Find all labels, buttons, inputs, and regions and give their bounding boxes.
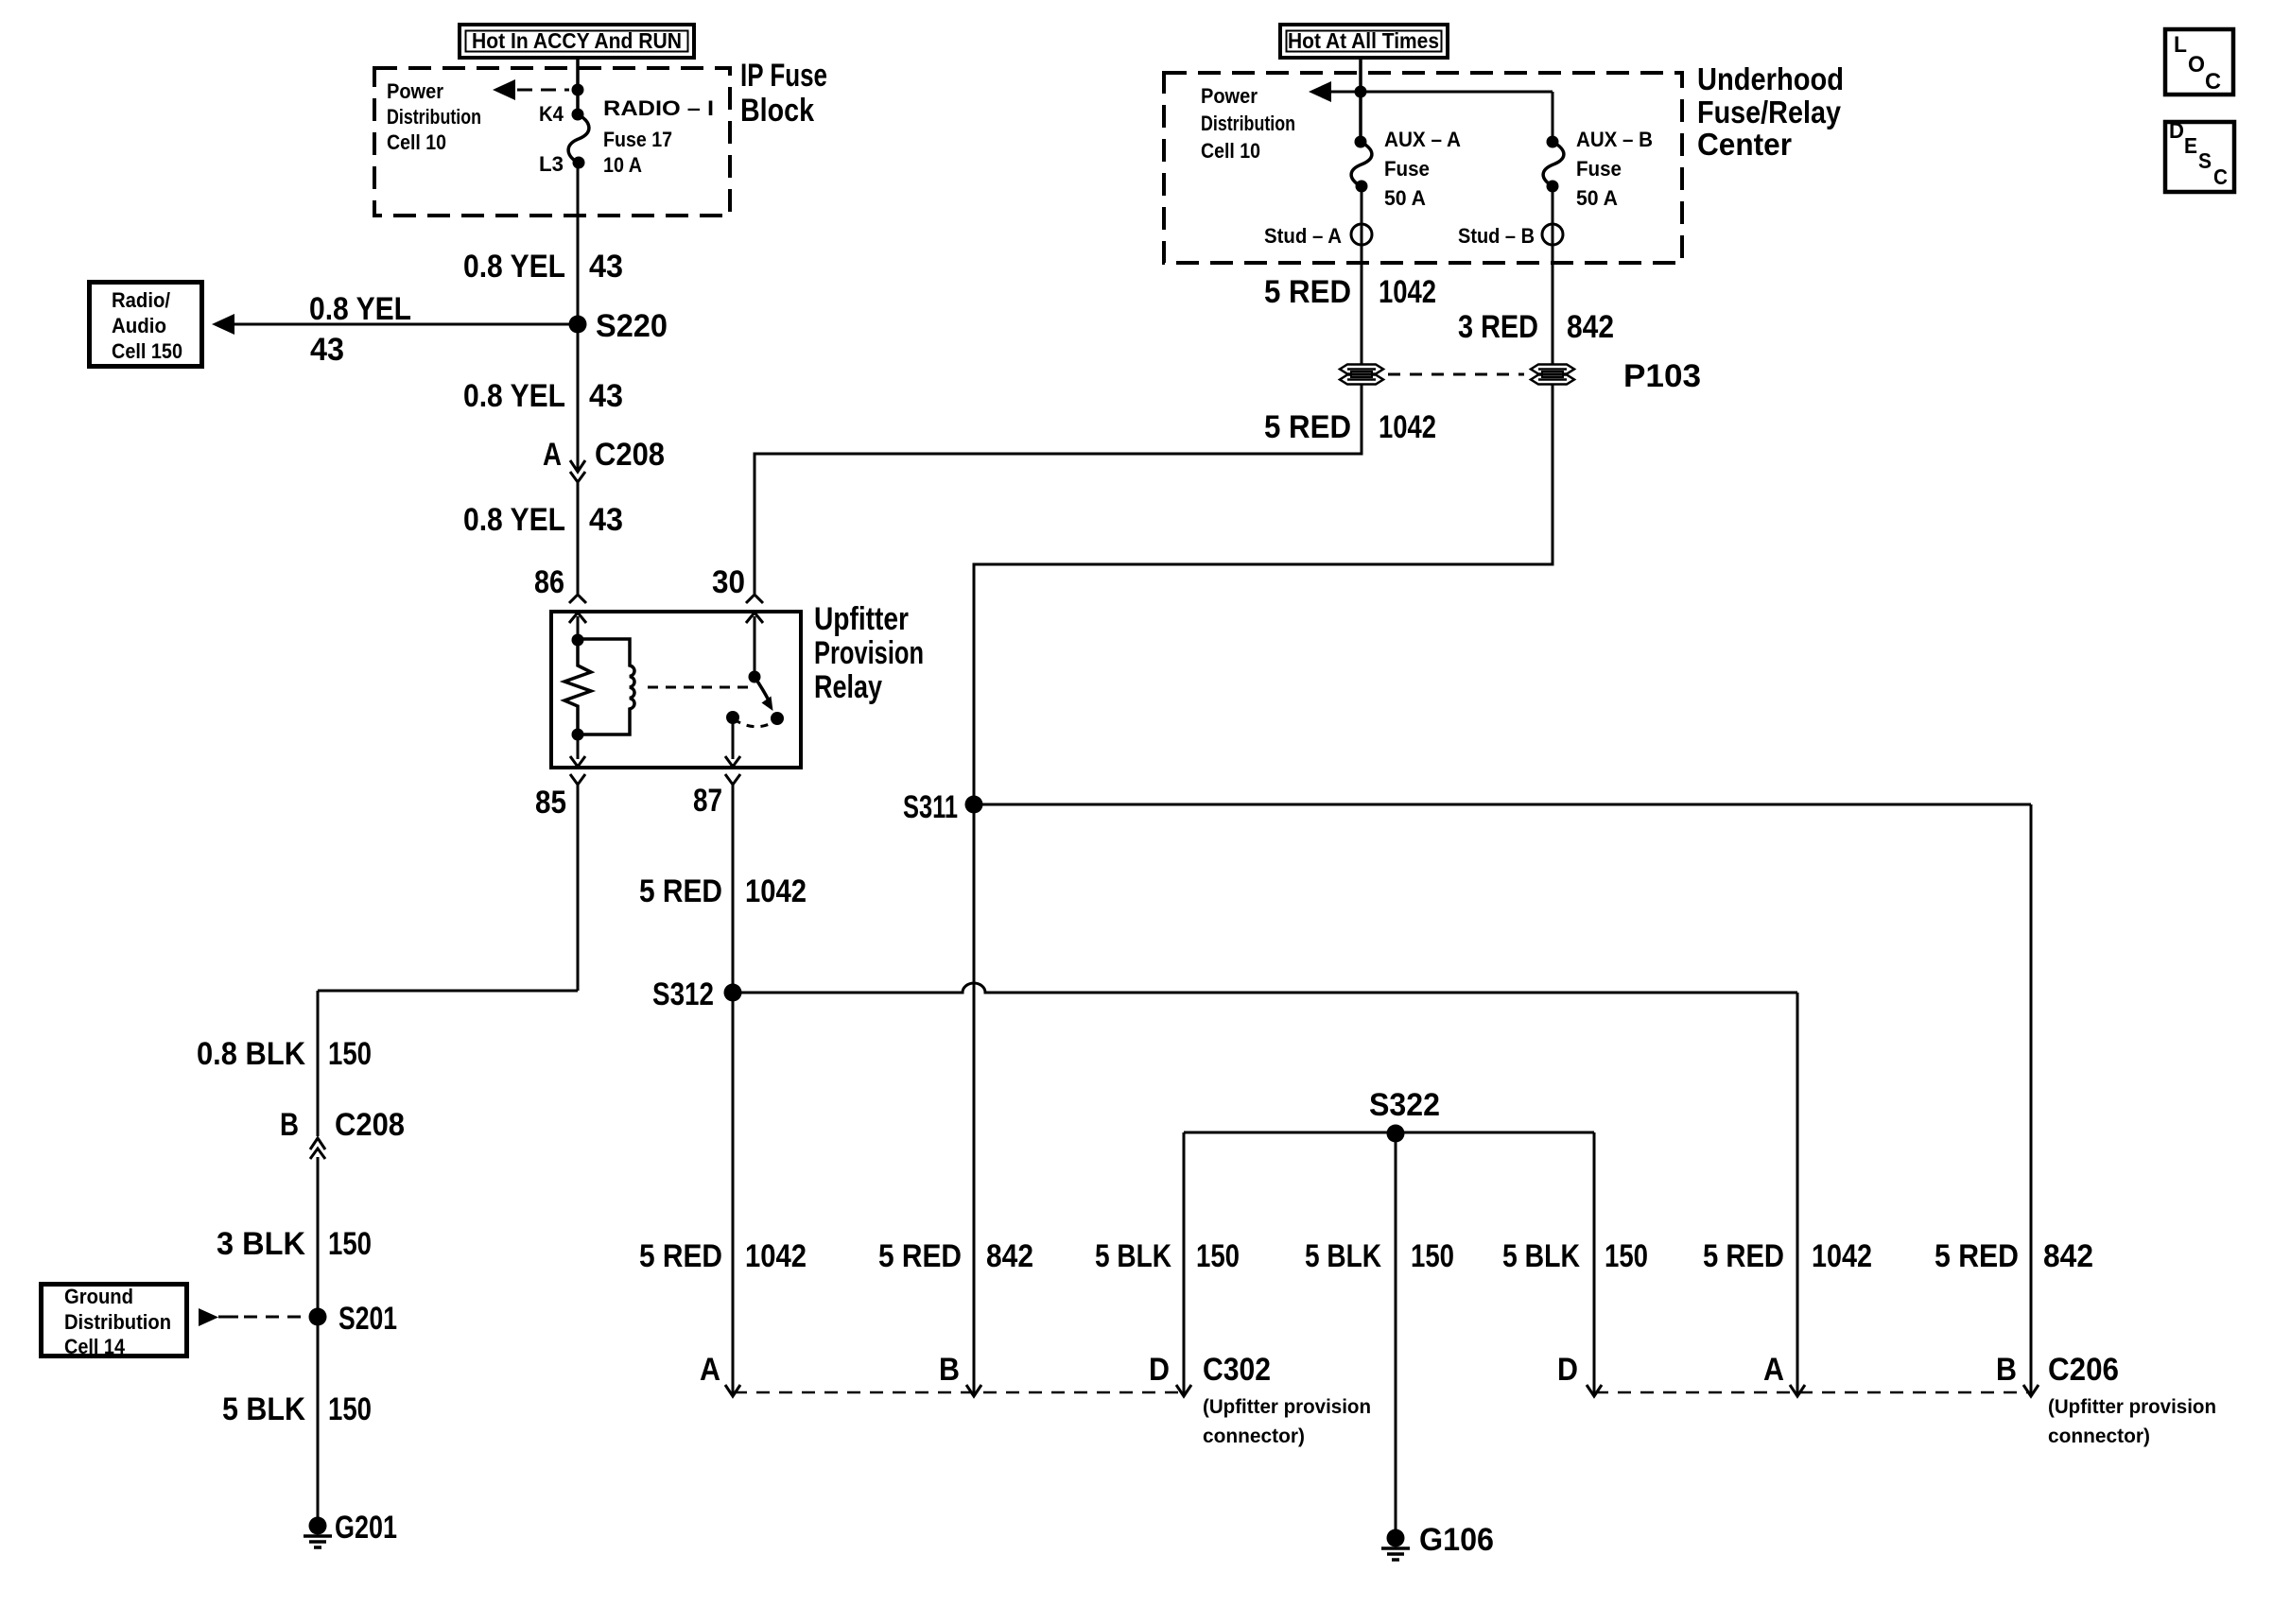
svg-text:connector): connector) [1203, 1425, 1305, 1447]
wire to fuse AUX-B [1552, 92, 1554, 142]
svg-text:RADIO – I: RADIO – I [603, 96, 714, 120]
svg-text:1042: 1042 [1379, 274, 1436, 310]
svg-text:A: A [1763, 1352, 1784, 1388]
label: RADIO-I Fuse 17 10 A [603, 96, 714, 177]
relay switch arm with arrowhead [755, 677, 773, 711]
svg-text:5 RED: 5 RED [639, 1238, 722, 1274]
fuse AUX-B top dot [1547, 136, 1559, 148]
svg-text:K4: K4 [539, 102, 564, 126]
fuse AUX-B bottom dot [1547, 181, 1559, 193]
relay U1 box: Upfitter Provision Relay [551, 612, 801, 768]
dashed reference to Ground Distribution [199, 1308, 306, 1326]
svg-text:0.8 YEL: 0.8 YEL [309, 291, 411, 327]
wire label 0.8 YEL 43 (C208 to relay) [463, 502, 623, 538]
svg-text:G201: G201 [335, 1510, 397, 1546]
connector C302 pin B arrowhead [966, 1385, 981, 1396]
wire S322 down to ground G106 [1395, 1133, 1397, 1538]
svg-text:3 RED: 3 RED [1458, 309, 1538, 345]
relay pin 30 internal arrow [746, 613, 763, 677]
svg-text:43: 43 [589, 249, 623, 285]
svg-text:50 A: 50 A [1576, 186, 1618, 210]
svg-text:S: S [2198, 148, 2212, 173]
svg-text:Distribution: Distribution [387, 105, 481, 129]
relay label: Upfitter Provision Relay [814, 601, 924, 705]
svg-text:B: B [1996, 1352, 2017, 1388]
fuse AUX-A top dot [1355, 136, 1367, 148]
node S311 dot [965, 796, 983, 814]
svg-text:S201: S201 [338, 1301, 397, 1337]
svg-text:AUX – A: AUX – A [1384, 128, 1461, 151]
wire fuse AUX-A to Stud-A [1361, 186, 1363, 364]
svg-text:5 RED: 5 RED [1264, 409, 1351, 445]
relay coil bottom dot [572, 729, 584, 741]
svg-text:150: 150 [328, 1391, 372, 1427]
svg-text:P103: P103 [1623, 358, 1701, 394]
relay switch pivot dot [749, 671, 761, 683]
wire label 5 RED 1042 (stud A) [1264, 274, 1436, 310]
wire label 3 BLK 150 [217, 1226, 372, 1262]
relay pin 86 connector chevron [569, 595, 586, 603]
svg-text:43: 43 [310, 332, 344, 368]
connector C206 label [2048, 1352, 2216, 1447]
svg-text:AUX – B: AUX – B [1576, 128, 1653, 151]
svg-text:(Upfitter provision: (Upfitter provision [1203, 1396, 1371, 1418]
wire from Hot At All Times down [1359, 60, 1362, 142]
relay pin 87 connector chevron [725, 774, 740, 785]
svg-text:Ground: Ground [64, 1285, 133, 1308]
connector C208 pin A symbol [570, 460, 585, 482]
svg-text:Hot At All Times: Hot At All Times [1288, 28, 1439, 53]
svg-text:S322: S322 [1369, 1087, 1440, 1123]
svg-text:5 BLK: 5 BLK [1305, 1238, 1381, 1274]
wire label 5 BLK 150 (to G201) [222, 1391, 372, 1427]
label: Power Distribution Cell 10 (IP) [387, 79, 481, 154]
connector C302 label [1203, 1352, 1371, 1447]
wire S312 right with hop over 842 wire [733, 983, 1797, 993]
svg-text:C208: C208 [595, 437, 665, 473]
IP Fuse Block dashed outline [374, 68, 730, 216]
svg-text:connector): connector) [2048, 1425, 2150, 1447]
wire S311 right to C206 pin B branch [974, 803, 2031, 806]
label: Underhood Fuse/Relay Center [1697, 61, 1844, 162]
svg-text:Fuse: Fuse [1384, 157, 1430, 181]
wire label 0.8 YEL 43 (fuse to S220) [463, 249, 623, 285]
svg-text:C206: C206 [2048, 1352, 2119, 1388]
wire P103 to relay pin 30 [755, 385, 1362, 594]
svg-text:Provision: Provision [814, 635, 924, 671]
node S322 dot [1387, 1125, 1405, 1143]
connector C206 pin A arrowhead [1790, 1385, 1805, 1396]
svg-text:0.8 YEL: 0.8 YEL [463, 502, 565, 538]
grommet P103 (circuit 842) [1531, 365, 1574, 385]
svg-text:842: 842 [2043, 1238, 2093, 1274]
connector C206 pin letters [1557, 1352, 2017, 1388]
svg-text:Center: Center [1697, 127, 1792, 162]
svg-text:IP Fuse: IP Fuse [740, 58, 827, 94]
svg-text:Cell 14: Cell 14 [64, 1335, 126, 1358]
svg-text:5 BLK: 5 BLK [1502, 1238, 1580, 1274]
wire S201 to ground G201 [317, 1317, 320, 1526]
wire C208 pin A to relay pin 86 [577, 482, 580, 594]
svg-text:L: L [2174, 32, 2187, 58]
wire S220 down to connector C208 pin A [577, 324, 580, 472]
svg-text:1042: 1042 [745, 1238, 807, 1274]
wire from Hot In ACCY feed down to fuse RADIO-I [576, 60, 580, 114]
wire S311 down to C302 pin B [973, 804, 976, 1396]
svg-text:O: O [2188, 52, 2205, 78]
relay coil winding [578, 639, 634, 734]
svg-text:43: 43 [589, 502, 623, 538]
connector C206 pin B arrowhead [2023, 1385, 2039, 1396]
svg-text:150: 150 [328, 1226, 372, 1262]
Stud-B terminal circle [1542, 224, 1563, 245]
svg-text:5 RED: 5 RED [639, 873, 722, 909]
svg-text:B: B [939, 1352, 960, 1388]
svg-text:C302: C302 [1203, 1352, 1271, 1388]
svg-text:842: 842 [1567, 309, 1614, 345]
svg-text:150: 150 [1411, 1238, 1454, 1274]
svg-text:Block: Block [740, 93, 814, 129]
power feed label box: Hot At All Times [1280, 25, 1448, 58]
dashed tie between P103 grommets [1388, 373, 1524, 376]
grommet P103 (circuit 1042) [1340, 365, 1383, 385]
pin K4 dot [572, 109, 584, 121]
svg-text:Distribution: Distribution [1201, 112, 1295, 135]
svg-text:0.8 YEL: 0.8 YEL [463, 249, 565, 285]
label: Power Distribution Cell 10 (underhood) [1201, 84, 1295, 163]
node S220 dot [569, 316, 587, 334]
svg-text:A: A [543, 437, 562, 473]
wire S322 left branch down to C302 pin D [1183, 1132, 1186, 1396]
svg-text:5 BLK: 5 BLK [222, 1391, 305, 1427]
svg-text:5 RED: 5 RED [1264, 274, 1351, 310]
wire relay pin 85 down [577, 785, 580, 991]
relay pin 87 internal arrow [725, 717, 740, 767]
svg-text:0.8 BLK: 0.8 BLK [197, 1036, 305, 1072]
wire label 5 RED 842 (C206 B) [1935, 1238, 2093, 1274]
wire label 5 RED 842 (C302 B) [878, 1238, 1033, 1274]
wire down to connector C208 pin B [317, 991, 320, 1136]
DESC reference box [2165, 118, 2234, 192]
svg-text:Power: Power [1201, 84, 1258, 108]
ground G201 symbol [304, 1517, 332, 1548]
svg-text:Fuse/Relay: Fuse/Relay [1697, 95, 1842, 130]
svg-text:Radio/: Radio/ [112, 288, 170, 312]
svg-text:C: C [2205, 69, 2221, 95]
svg-text:B: B [280, 1107, 299, 1143]
svg-text:0.8 YEL: 0.8 YEL [463, 378, 565, 414]
connector C206 dashed face [1595, 1391, 2030, 1394]
wire label 5 RED 1042 (below P103) [1264, 409, 1436, 445]
wire P103-842 down and left to S311 branch [974, 385, 1553, 804]
wire label 5 RED 1042 (C206 A) [1703, 1238, 1872, 1274]
svg-text:Upfitter: Upfitter [814, 601, 909, 637]
svg-text:Relay: Relay [814, 669, 882, 705]
connector C208 pin A labels [543, 437, 665, 473]
svg-text:85: 85 [535, 785, 566, 821]
wire relay pin 87 down to S312 [732, 785, 735, 993]
relay coil resistor (zigzag) [564, 639, 591, 734]
wire label 5 BLK 150 (C206 D) [1502, 1238, 1648, 1274]
svg-text:87: 87 [693, 783, 722, 819]
relay pin 86 internal arrow [569, 613, 586, 639]
relay dashed coil-to-arm linkage [648, 686, 748, 689]
svg-text:150: 150 [328, 1036, 372, 1072]
svg-text:1042: 1042 [745, 873, 807, 909]
Underhood Fuse/Relay Center dashed outline [1164, 73, 1682, 263]
svg-text:Stud – A: Stud – A [1264, 224, 1342, 248]
svg-text:Fuse 17: Fuse 17 [603, 128, 672, 151]
svg-text:S220: S220 [596, 308, 668, 344]
svg-text:Cell 150: Cell 150 [112, 339, 182, 363]
connector C302 dashed face [734, 1391, 1183, 1394]
wire S322 horizontal [1184, 1132, 1594, 1134]
connector C208 pin B labels [280, 1107, 405, 1143]
svg-text:1042: 1042 [1379, 409, 1436, 445]
svg-text:S311: S311 [903, 789, 958, 825]
arrow to Power Distribution Cell 10 (IP) [493, 79, 569, 100]
svg-text:150: 150 [1196, 1238, 1240, 1274]
svg-text:D: D [2169, 118, 2184, 143]
svg-text:30: 30 [712, 564, 745, 600]
relay switch arm end dot [771, 712, 784, 725]
relay coil top dot [572, 634, 584, 647]
svg-text:150: 150 [1605, 1238, 1648, 1274]
relay pin 85 internal arrow [570, 734, 585, 767]
node S312 dot [724, 984, 742, 1002]
svg-text:3 BLK: 3 BLK [217, 1226, 305, 1262]
component box: Ground Distribution Cell 14 [42, 1285, 187, 1359]
fuse AUX-A bottom dot [1356, 181, 1368, 193]
svg-text:Fuse: Fuse [1576, 157, 1622, 181]
wire C208 pin B to node S201 [317, 1157, 320, 1317]
svg-text:G106: G106 [1419, 1522, 1494, 1558]
svg-text:1042: 1042 [1812, 1238, 1872, 1274]
svg-text:Distribution: Distribution [64, 1310, 171, 1334]
fuse AUX-A element [1351, 142, 1372, 186]
svg-text:C: C [2213, 164, 2228, 189]
arrow to Power Distribution Cell 10 (underhood) [1309, 81, 1553, 102]
wire S312 branch down to C206 pin A [1796, 993, 1799, 1396]
fuse AUX-B element [1543, 142, 1564, 186]
pin L3 dot [573, 157, 585, 169]
wire label 5 BLK 150 (C302 D) [1095, 1238, 1240, 1274]
svg-text:C208: C208 [335, 1107, 405, 1143]
power feed label box: Hot In ACCY And RUN [460, 25, 694, 58]
wire S322 right branch down to C206 pin D [1593, 1132, 1596, 1396]
connector C302 pin D arrowhead [1176, 1385, 1191, 1396]
relay pin 85 connector chevron [570, 774, 585, 785]
svg-text:Cell 10: Cell 10 [1201, 139, 1260, 163]
svg-text:L3: L3 [539, 152, 564, 176]
svg-text:A: A [700, 1352, 720, 1388]
svg-text:43: 43 [589, 378, 623, 414]
svg-text:Audio: Audio [112, 314, 166, 337]
LOC reference box [2165, 29, 2233, 95]
svg-text:842: 842 [986, 1238, 1033, 1274]
svg-text:5 BLK: 5 BLK [1095, 1238, 1171, 1274]
svg-text:10 A: 10 A [603, 153, 642, 177]
junction dot at underhood feed [1355, 86, 1367, 98]
connector C208 pin B symbol [310, 1138, 325, 1159]
label: AUX-A Fuse 50 A [1384, 128, 1461, 210]
relay dashed contact travel arc [734, 719, 776, 727]
label: IP Fuse Block [740, 58, 827, 129]
node S201 dot [309, 1308, 327, 1326]
fuse RADIO-I element [568, 114, 589, 163]
wire 85 jog left [318, 990, 578, 993]
connector C302 pin A arrowhead [725, 1385, 740, 1396]
svg-text:50 A: 50 A [1384, 186, 1426, 210]
ground G106 symbol [1381, 1529, 1410, 1561]
svg-text:(Upfitter provision: (Upfitter provision [2048, 1396, 2216, 1418]
wire label 3 RED 842 [1458, 309, 1614, 345]
svg-text:Power: Power [387, 79, 443, 103]
relay 87 contact dot [726, 711, 739, 724]
connector C302 pin letters [700, 1352, 1170, 1388]
svg-text:Underhood: Underhood [1697, 61, 1844, 96]
wire fuse L3 down to node S220 [577, 163, 580, 324]
svg-text:5 RED: 5 RED [878, 1238, 962, 1274]
svg-text:5 RED: 5 RED [1935, 1238, 2019, 1274]
svg-text:E: E [2184, 133, 2197, 158]
wire label 5 RED 1042 (C302 A) [639, 1238, 807, 1274]
connector C206 pin D arrowhead [1587, 1385, 1602, 1396]
wire label 5 RED 1042 (pin 87) [639, 873, 807, 909]
svg-text:D: D [1557, 1352, 1578, 1388]
wire label 0.8 BLK 150 [197, 1036, 372, 1072]
wire label 0.8 YEL 43 (S220 to C208) [463, 378, 623, 414]
Stud-A terminal circle [1351, 224, 1372, 245]
svg-text:86: 86 [534, 564, 564, 600]
wire S220 to Radio/Audio with arrow [212, 314, 578, 335]
component box: Radio/Audio Cell 150 [90, 283, 202, 367]
relay pin 30 connector chevron [746, 595, 763, 603]
svg-text:Stud – B: Stud – B [1458, 224, 1535, 248]
svg-text:Hot In ACCY And RUN: Hot In ACCY And RUN [472, 28, 682, 53]
wire S312 down to C302 pin A [732, 993, 735, 1396]
junction dot at IP feed [572, 84, 584, 96]
svg-text:S312: S312 [652, 976, 714, 1012]
wire S311 branch down to C206 pin B [2030, 804, 2033, 1396]
svg-text:D: D [1149, 1352, 1170, 1388]
svg-text:Cell 10: Cell 10 [387, 130, 446, 154]
label: AUX-B Fuse 50 A [1576, 128, 1653, 210]
svg-text:5 RED: 5 RED [1703, 1238, 1784, 1274]
wire label 5 BLK 150 (G106 wire) [1305, 1238, 1454, 1274]
wire fuse AUX-B to Stud-B [1552, 186, 1554, 364]
